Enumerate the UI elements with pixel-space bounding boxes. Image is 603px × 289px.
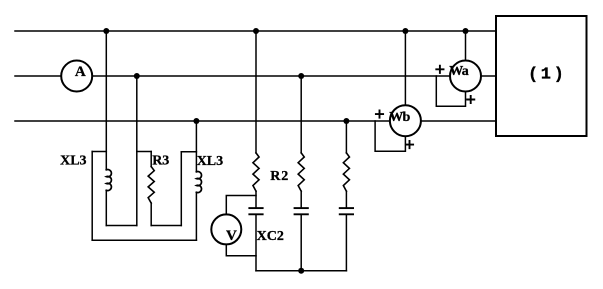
wire L2 middle phase left segment xyxy=(15,75,61,77)
voltmeter V xyxy=(211,214,241,244)
wire branch2 mid lead xyxy=(300,191,302,208)
wire wye bottom xyxy=(256,270,346,272)
node L1-Wb voltage junction xyxy=(402,28,408,34)
svg-text:R3: R3 xyxy=(152,154,169,169)
wattmeter Wa xyxy=(450,61,481,92)
capacitor branch3 bottom plate xyxy=(340,213,353,215)
wire branch1 vertical upper xyxy=(255,31,257,153)
resistor branch3 zigzag xyxy=(343,153,349,191)
wire U2 bottom xyxy=(151,225,181,227)
wire L1 top phase xyxy=(15,30,496,32)
svg-text:Wb: Wb xyxy=(389,110,410,125)
wire branch3 vertical upper xyxy=(345,121,347,153)
capacitor branch2 top plate xyxy=(295,207,308,209)
ammeter A xyxy=(61,61,92,92)
wattmeter Wb xyxy=(390,105,421,136)
capacitor branch2 bottom plate xyxy=(295,213,308,215)
wire below left coil xyxy=(105,190,107,225)
svg-text:XC2: XC2 xyxy=(257,229,284,244)
wire phase1 vertical upper xyxy=(105,31,107,170)
wire branch1 lower lead xyxy=(255,214,257,270)
capacitor XC2 top plate xyxy=(249,207,262,209)
load box (1) xyxy=(496,16,587,136)
node L3-delta junction xyxy=(193,118,199,124)
plus Wb bottom xyxy=(406,141,413,148)
wire outer bottom xyxy=(92,239,196,241)
svg-text:V: V xyxy=(226,228,237,244)
wire U2 riser xyxy=(180,152,182,226)
inductor XL3 left coil xyxy=(106,170,111,191)
inductor XL3 right coil xyxy=(196,172,201,193)
wire Wb voltage lead from L1 xyxy=(404,31,406,105)
wire left stub xyxy=(92,151,106,153)
node L3-branch3 junction xyxy=(343,118,349,124)
svg-text:XL3: XL3 xyxy=(60,153,86,168)
wire branch3 mid lead xyxy=(345,191,347,208)
wire L3 bottom phase right segment xyxy=(421,120,496,122)
capacitor branch3 top plate xyxy=(340,207,353,209)
wire Wa voltage bracket xyxy=(436,76,465,106)
wire R3 top lead xyxy=(150,152,152,167)
wire branch2 vertical upper xyxy=(300,76,302,153)
wire V top lead xyxy=(226,196,256,215)
plus Wa left xyxy=(436,66,443,73)
svg-text:XL3: XL3 xyxy=(197,154,223,169)
svg-text:R2: R2 xyxy=(270,169,289,184)
wire R3 stub xyxy=(137,151,151,153)
plus Wb left xyxy=(376,111,383,118)
node L2-delta junction xyxy=(134,73,140,79)
wire outer-left vertical xyxy=(91,152,93,241)
wire Wb voltage bracket xyxy=(375,121,405,151)
capacitor XC2 bottom plate xyxy=(249,213,262,215)
node L1-delta junction xyxy=(103,28,109,34)
wire U1 bottom xyxy=(106,225,137,227)
wire phase3 vertical lower xyxy=(195,192,197,240)
wire phase3 vertical upper xyxy=(195,121,197,172)
wire L2 middle phase mid segment xyxy=(92,75,450,77)
wire V bottom lead xyxy=(226,244,256,255)
wire right stub xyxy=(181,151,196,153)
wire R3 bottom lead xyxy=(150,203,152,225)
wire phase2 vertical xyxy=(136,76,138,226)
node L2-branch2 junction xyxy=(298,73,304,79)
wire branch3 lower lead xyxy=(345,214,347,270)
svg-text:(1): (1) xyxy=(528,66,566,85)
node L1-branch1 junction xyxy=(253,28,259,34)
plus Wa bottom xyxy=(467,96,474,103)
wire branch2 lower lead xyxy=(300,214,302,270)
node branch2-bottom junction xyxy=(298,268,304,274)
resistor R3 zigzag xyxy=(148,167,154,203)
wire L3 bottom phase left segment xyxy=(15,120,390,122)
wire Wa voltage lead from L1 xyxy=(465,31,467,61)
wire L2 middle phase right segment xyxy=(481,75,496,77)
svg-text:A: A xyxy=(75,64,86,80)
resistor R2 zigzag xyxy=(253,153,259,191)
wire branch1 mid lead xyxy=(255,191,257,208)
resistor branch2 zigzag xyxy=(298,153,304,191)
svg-text:Wa: Wa xyxy=(449,64,468,79)
node L1-Wa voltage junction xyxy=(463,28,469,34)
